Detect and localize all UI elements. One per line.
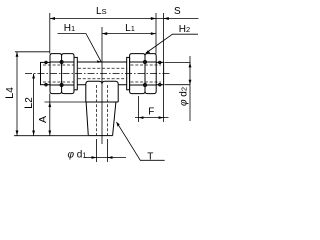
- svg-text:L1: L1: [125, 23, 135, 34]
- svg-text:φ d2: φ d2: [179, 87, 190, 106]
- svg-text:L4: L4: [4, 87, 16, 99]
- svg-text:H2: H2: [179, 24, 190, 35]
- svg-text:φ d1: φ d1: [67, 150, 86, 161]
- svg-text:H1: H1: [64, 23, 75, 34]
- svg-text:A: A: [37, 116, 49, 123]
- svg-text:L2: L2: [23, 97, 35, 109]
- svg-text:F: F: [148, 106, 154, 117]
- svg-text:LS: LS: [96, 6, 107, 17]
- svg-text:T: T: [147, 152, 153, 163]
- svg-text:S: S: [174, 6, 181, 17]
